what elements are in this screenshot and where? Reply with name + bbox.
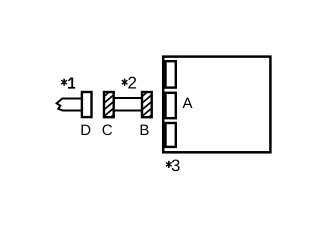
bushing B (hatched rectangle) [142,87,154,123]
connecting bar between C and B [113,98,142,111]
slot 2 (middle, A) [166,93,176,118]
svg-text:C: C [102,122,113,139]
collar D (plain rectangle) [82,92,92,117]
svg-text:3: 3 [171,157,180,175]
shaft with break (jagged) end, part *1 [57,99,82,111]
label *3 (asterisk) [166,161,172,168]
bushing C (hatched rectangle) [104,87,116,123]
slot 1 (top) [166,61,176,87]
housing box [163,57,270,153]
slot 3 (bottom) [166,123,176,147]
svg-text:A: A [183,95,193,112]
label *2 (asterisk) [122,79,128,86]
svg-text:D: D [80,122,91,139]
svg-text:B: B [139,122,149,139]
label *1 (digit 1 with serif base) [68,78,75,88]
svg-text:2: 2 [128,74,137,93]
label *1 (asterisk) [61,79,67,86]
